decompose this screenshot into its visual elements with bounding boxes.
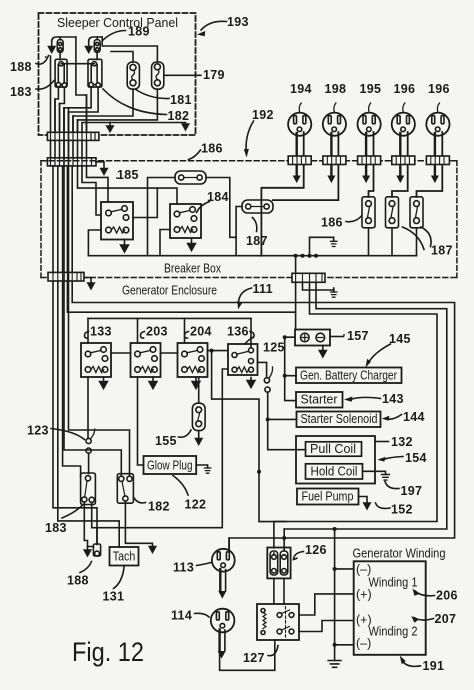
svg-text:204: 204	[190, 325, 212, 339]
svg-text:179: 179	[203, 68, 225, 82]
pointer 207 arrow	[414, 618, 434, 621]
pointer 181 curve	[137, 90, 170, 99]
pointer 182 line	[103, 89, 167, 115]
relay 133 ground	[103, 377, 105, 382]
breaker/plug symbol 189 (right)	[86, 37, 103, 53]
pointer 144 arrow	[388, 415, 402, 420]
svg-text:(–): (–)	[356, 637, 371, 651]
relay 133	[81, 343, 111, 377]
svg-text:145: 145	[389, 332, 411, 346]
switch 155 ground	[198, 431, 200, 439]
pointer 186a curve (top fuse label)	[189, 150, 201, 160]
svg-text:132: 132	[391, 435, 413, 449]
left long wire to right col (outer)	[72, 166, 454, 549]
outlet 113 prongs and ground	[219, 569, 226, 598]
svg-text:181: 181	[170, 93, 192, 107]
svg-text:Fig. 12: Fig. 12	[72, 637, 144, 667]
outlet prong wires o2	[273, 132, 339, 200]
relay 185 right pin wire	[133, 188, 157, 217]
outlet 114 loop wire to 127	[220, 640, 275, 670]
wire bundle to relay 185 left	[82, 166, 101, 215]
step wire dot at spine	[282, 527, 336, 540]
generator winding box	[354, 561, 426, 655]
relay top bus	[88, 317, 251, 319]
svg-text:191: 191	[423, 659, 445, 673]
svg-text:Starter Solenoid: Starter Solenoid	[301, 412, 378, 426]
outlet prong wires o5	[417, 132, 443, 197]
breaker switch 187 (right box)	[410, 197, 423, 228]
svg-text:Winding 1: Winding 1	[369, 575, 418, 589]
relay 185	[101, 202, 133, 240]
mid connector bar (bottom dashed line)	[292, 273, 325, 282]
pointer 127 dash	[268, 646, 278, 656]
outlet 113 top feed	[228, 538, 230, 550]
outlet prong wires o4	[392, 132, 408, 197]
switch 123 to box 183	[88, 453, 90, 473]
pointer 143 arrow	[352, 397, 381, 399]
svg-text:188: 188	[67, 574, 89, 588]
relay 185 ground	[124, 240, 126, 246]
svg-text:189: 189	[128, 25, 150, 39]
svg-text:155: 155	[155, 434, 177, 448]
svg-text:144: 144	[403, 410, 425, 424]
starter box	[296, 392, 343, 408]
bundle wires line1	[50, 56, 52, 166]
pointer 126 curve	[294, 552, 304, 560]
wire fuse2 to pill2 top	[102, 37, 157, 62]
pointer 188a curve	[36, 56, 49, 65]
pointer 206 arrow	[415, 591, 435, 596]
rocker switch box 2	[88, 59, 102, 87]
ground arrow at end x185	[182, 124, 188, 130]
relay 184 bottom-left wire	[160, 230, 170, 256]
pointer 188b curve	[80, 562, 92, 573]
inter-relay wires	[111, 351, 228, 353]
svg-text:Winding 2: Winding 2	[369, 624, 418, 638]
hold coil box	[306, 464, 363, 479]
pointer 184 curve	[197, 202, 210, 213]
step wire to right col (middle)	[284, 282, 447, 529]
glow plug feed from relay 203	[138, 377, 144, 465]
toggle switch 181 (pill)	[127, 62, 139, 89]
pointer 155 curve	[179, 430, 192, 437]
relay136 left pin wire to lower spine	[97, 369, 228, 528]
svg-text:203: 203	[146, 325, 168, 339]
outlet connector bar 3	[358, 156, 381, 165]
pull coil box 132	[306, 442, 362, 456]
pointer 111 arrow	[238, 288, 251, 304]
label curl 203	[140, 332, 144, 339]
ground arrow left of 188	[88, 547, 94, 551]
wire fuse2 to box2	[96, 53, 98, 60]
outlet connector bar 5	[426, 156, 449, 165]
relay 184 ground	[191, 238, 193, 244]
rocker switch box (183 pointer)	[55, 59, 67, 87]
step wire to right col (inner)	[274, 282, 437, 548]
svg-text:193: 193	[227, 15, 249, 29]
staircase wire box2-left to bundle	[64, 87, 91, 132]
staircase wire pill1 to bundle	[73, 89, 133, 132]
svg-text:182: 182	[168, 109, 190, 123]
outlet 196 (fifth)	[426, 103, 449, 136]
relay 204 ground	[195, 377, 197, 382]
hold coil ground	[363, 471, 386, 474]
pointer 186 dash	[346, 216, 362, 222]
126 feeds	[274, 529, 284, 555]
wire vertical between fuses down through panel	[76, 37, 87, 132]
pointer 193 arrow	[201, 21, 227, 30]
svg-text:Tach: Tach	[113, 549, 136, 563]
tach feed	[118, 546, 120, 548]
bundle wires below bar2 to bar3	[53, 166, 67, 272]
dashed line 192 / breaker box enclosure	[41, 160, 457, 162]
svg-text:Sleeper Control Panel: Sleeper Control Panel	[57, 16, 178, 30]
svg-text:188: 188	[10, 60, 32, 74]
svg-text:125: 125	[263, 341, 285, 355]
staircase wire pill2 to bundle	[77, 89, 157, 132]
wire fuse1 to switch 183 box	[59, 53, 61, 60]
relay 203	[131, 343, 161, 377]
relay 136 ground	[250, 378, 252, 381]
upper ground tap	[310, 237, 334, 255]
relay136 switch to 125	[258, 362, 267, 377]
gen battery charger box	[296, 368, 402, 384]
svg-text:196: 196	[394, 82, 416, 96]
battery ground	[322, 346, 324, 351]
relay 204	[178, 343, 208, 377]
wire bundle to relay 185 top	[87, 166, 109, 202]
outlet 196 (fourth)	[392, 103, 415, 136]
relay 185 bottom-left wire to main bus	[88, 230, 108, 256]
label 132 dash	[375, 441, 389, 443]
fuel pump box	[297, 489, 359, 505]
pointer 187 curves (right)	[421, 227, 431, 247]
svg-text:133: 133	[90, 325, 112, 339]
main breaker output bus	[88, 255, 416, 257]
pointer 154 arrow	[384, 457, 403, 460]
svg-text:Starter: Starter	[301, 393, 338, 407]
bundle line (fuse1 lead)	[45, 56, 47, 58]
wire fuse187 left down to bus	[236, 207, 242, 256]
outlet 194	[288, 103, 311, 136]
wire bundle to relay 184 top	[78, 166, 178, 204]
svg-text:127: 127	[243, 651, 265, 665]
pointer 185 none	[116, 177, 118, 179]
wire joining rocker tops	[61, 63, 94, 65]
svg-text:183: 183	[45, 521, 67, 535]
relay 127	[257, 604, 299, 640]
breaker/plug symbol (left, near 188)	[49, 37, 76, 53]
svg-text:183: 183	[10, 85, 32, 99]
svg-text:197: 197	[401, 484, 423, 498]
ground stub below bar2	[96, 162, 104, 169]
outlet connector bar 4	[392, 156, 415, 165]
pointer 187 left curve	[253, 218, 257, 232]
pointer 122 curve	[173, 476, 188, 496]
pointer 131 curve	[114, 567, 125, 589]
relay 203 ground	[152, 377, 154, 382]
pointer 192 arrow	[246, 121, 253, 151]
outlet prong wires o3	[363, 132, 374, 197]
box 182 bottom to ground bracket	[125, 501, 152, 546]
outlet 195	[358, 103, 381, 136]
svg-text:Pull Coil: Pull Coil	[310, 442, 356, 456]
wire fuse186 left down	[148, 178, 176, 256]
svg-text:184: 184	[207, 190, 229, 204]
svg-text:196: 196	[428, 82, 450, 96]
svg-text:206: 206	[436, 589, 458, 603]
svg-text:152: 152	[391, 503, 413, 517]
svg-text:114: 114	[171, 609, 192, 623]
svg-text:187: 187	[246, 234, 268, 248]
relay top stubs	[88, 318, 251, 350]
label curl 204	[184, 332, 188, 339]
outlet 114 prongs and ground	[218, 630, 225, 658]
svg-text:Fuel Pump: Fuel Pump	[302, 490, 354, 504]
glow plug ground	[196, 465, 207, 468]
connector 126	[267, 548, 290, 579]
staircase wire box1-left to bundle	[55, 87, 58, 133]
outlet 113	[212, 549, 235, 572]
svg-text:Glow Plug: Glow Plug	[147, 458, 193, 472]
svg-text:194: 194	[290, 82, 312, 96]
pointer 157 none	[343, 334, 345, 336]
126 to 127 wires	[274, 578, 284, 604]
left connector bar (bottom dashed line)	[48, 272, 84, 281]
svg-text:198: 198	[325, 82, 347, 96]
svg-text:Breaker Box: Breaker Box	[164, 262, 222, 276]
outlet connector bar 2	[323, 156, 346, 165]
svg-text:186: 186	[321, 216, 343, 230]
box 182 feeds	[64, 108, 130, 476]
wire 179 pointer line	[164, 74, 201, 76]
switch bottom stubs to bus	[369, 228, 417, 256]
connector 188 component	[93, 528, 100, 556]
wire bundle verticals through bars	[54, 99, 56, 166]
battery label dash	[330, 336, 344, 338]
svg-text:111: 111	[253, 282, 273, 296]
ground tap on bus line	[303, 282, 335, 290]
label curl 133	[84, 332, 88, 339]
staircase wire box1-right to bundle	[60, 87, 65, 132]
outlet 198	[323, 103, 346, 136]
ground stub below bar3	[84, 278, 91, 284]
charger/starter feed spine	[285, 337, 296, 400]
pointer 182b curve	[134, 498, 146, 503]
fuse 187 (left pill)	[242, 200, 273, 213]
coils outer box 154	[296, 436, 375, 484]
outlet 114	[211, 609, 235, 633]
fuel pump ground	[359, 497, 368, 504]
toggle switch 179 (pill)	[152, 62, 164, 89]
svg-text:143: 143	[382, 392, 404, 406]
outlet connector bar 1	[288, 156, 311, 165]
pointer 113 squiggle	[197, 563, 212, 566]
svg-text:Generator Enclosure: Generator Enclosure	[122, 284, 217, 298]
svg-text:Hold Coil: Hold Coil	[311, 465, 358, 479]
box 183 (lower switch)	[81, 473, 96, 505]
winding spine and ground	[335, 529, 354, 661]
svg-text:Generator Winding: Generator Winding	[353, 546, 446, 560]
starter solenoid box	[297, 412, 381, 428]
staircase wire box2-right to bundle	[69, 87, 99, 132]
svg-text:157: 157	[347, 329, 369, 343]
wire 204-136 tap down (spine1 feed)	[212, 351, 286, 522]
bundle wires below bar3	[53, 281, 97, 545]
battery feed line	[295, 256, 297, 330]
pointer 152 curve	[376, 503, 391, 508]
panel ground wire with arrows	[82, 123, 186, 133]
pointer 123 curve	[51, 429, 85, 440]
pointer 114 squiggle	[195, 613, 210, 617]
svg-text:131: 131	[103, 590, 125, 604]
breaker switch 187 (middle box)	[386, 197, 399, 228]
svg-text:192: 192	[252, 108, 274, 122]
svg-text:(+): (+)	[356, 588, 372, 602]
bus junction dots	[294, 254, 318, 258]
svg-text:126: 126	[305, 543, 327, 557]
battery 157	[295, 330, 330, 346]
box 182 (lower switch)	[117, 474, 133, 504]
outlet prong wires o1	[261, 132, 303, 256]
svg-text:186: 186	[201, 142, 223, 156]
switch 155 (pill)	[192, 403, 205, 430]
pointer 191 squiggle	[402, 660, 421, 667]
connector bar (on dashed line 192)	[47, 158, 96, 166]
svg-text:154: 154	[405, 451, 427, 465]
ground arrow small at x110	[107, 123, 113, 132]
wire pill1 top up/left	[111, 52, 133, 63]
switch 125	[264, 367, 272, 392]
svg-text:122: 122	[185, 498, 207, 512]
connector bar (panel bottom)	[47, 132, 99, 140]
svg-text:123: 123	[27, 424, 49, 438]
svg-text:185: 185	[117, 168, 139, 182]
svg-text:195: 195	[360, 82, 382, 96]
switch 155 feed	[198, 377, 200, 403]
wire fuse186 right to relay184	[206, 178, 236, 238]
svg-text:182: 182	[148, 500, 170, 514]
pointer 197 curve	[385, 482, 399, 489]
tach box	[110, 547, 139, 566]
glow plug box	[144, 456, 197, 474]
pointer 183b curve	[62, 505, 83, 518]
pointer 145 arrow	[368, 344, 391, 364]
label curl 136	[245, 332, 254, 345]
earth ground symbol	[328, 661, 341, 668]
relay136 coil feed from left	[227, 354, 229, 356]
switch 125 output spine2	[268, 392, 306, 450]
relay 136	[228, 344, 258, 375]
relay 133 to switch 123	[87, 377, 89, 437]
pointer 189 line	[103, 31, 126, 41]
svg-text:187: 187	[431, 244, 453, 258]
box 183 bottom wires	[84, 502, 97, 546]
relay 184	[170, 204, 201, 238]
svg-text:113: 113	[173, 561, 194, 575]
switch 123	[86, 429, 95, 453]
svg-text:136: 136	[227, 325, 249, 339]
breaker switch 186 (left box)	[362, 197, 375, 228]
fuse 186 (top pill)	[175, 171, 206, 184]
svg-text:207: 207	[435, 612, 457, 626]
svg-text:Gen. Battery Charger: Gen. Battery Charger	[300, 369, 397, 383]
sleeper control panel enclosure 193 (dashed box)	[39, 13, 196, 135]
pointer 183a curve	[36, 81, 54, 90]
127 to winding + feeds	[299, 594, 354, 632]
